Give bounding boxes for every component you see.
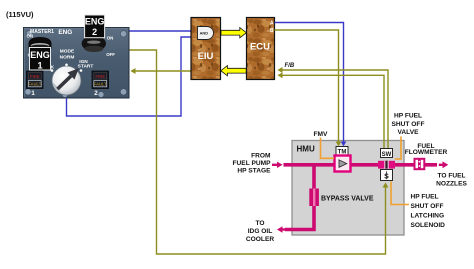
rotary mode selector knob [51,64,83,95]
wire ECU channel A to torque motor (blue) [275,23,344,146]
svg-text:AND: AND [200,31,209,36]
from fuel pump inlet arrow [272,162,283,168]
svg-text:OFF: OFF [106,52,115,57]
torque motor TM box [336,147,348,156]
wire EIU to panel indication (olive) [132,70,192,72]
svg-text:HP FUEL: HP FUEL [411,194,439,201]
svg-text:NORM: NORM [60,54,75,60]
svg-text:IDG OIL: IDG OIL [248,228,273,235]
to fuel nozzles outlet arrow [439,161,449,168]
wire mode selector to EIU (blue) [67,37,197,116]
leader FMV to valve (orange) [321,138,335,159]
svg-text:1: 1 [31,90,35,97]
ENG control panel 115VU [24,28,130,99]
svg-text:ON: ON [107,35,114,40]
svg-text:FLOWMETER: FLOWMETER [405,149,448,156]
svg-text:2: 2 [92,27,97,37]
svg-text:SHUT OFF: SHUT OFF [411,203,444,210]
bypass valve [309,189,319,207]
svg-text:START: START [78,63,94,69]
wire feedback switch to ECU F/B line 2 (olive) [279,75,385,148]
leader HP fuel shut off valve label (orange) [395,137,401,160]
svg-text:NOZZLES: NOZZLES [436,180,467,187]
svg-text:(115VU): (115VU) [6,10,34,19]
svg-text:LATCHING: LATCHING [411,213,445,220]
AND gate U1 [198,27,214,40]
svg-text:HP STAGE: HP STAGE [237,168,271,175]
FIRE FAULT pushbutton 2 [92,71,109,89]
svg-text:ON: ON [27,33,34,38]
latching solenoid S box [381,170,393,181]
wire feedback switch to ECU F/B line 1 (olive) [279,70,389,149]
svg-text:HMU: HMU [297,145,315,154]
leader latching solenoid label (orange) [391,182,409,205]
panel legend text [27,29,116,97]
HMU box [292,141,404,236]
svg-text:ENG: ENG [85,16,105,26]
panel screws [25,30,127,97]
svg-text:FMV: FMV [314,131,329,138]
bypass fuel pipe to IDG oil cooler [285,165,314,230]
ENG 2 master switch [82,15,106,52]
label TO IDG OIL COOLER [246,220,274,243]
svg-text:MASTER1: MASTER1 [30,29,54,35]
wire master switch to HP shutoff solenoid (olive) [130,50,386,254]
main fuel pipe [284,163,438,167]
svg-text:BYPASS VALVE: BYPASS VALVE [321,196,374,203]
svg-text:SW: SW [382,152,392,158]
label HP FUEL SHUT OFF VALVE [392,113,425,137]
yellow bus arrow EIU to ECU [221,28,246,38]
svg-text:FIRE: FIRE [30,74,40,79]
EIU box [191,18,221,80]
svg-text:MODE: MODE [60,49,75,55]
svg-text:ENG: ENG [58,29,72,36]
svg-text:FIRE: FIRE [95,74,105,79]
svg-text:COOLER: COOLER [246,236,274,243]
svg-text:FROM: FROM [251,152,271,159]
svg-text:1: 1 [37,60,42,70]
HP fuel shut off valve [378,161,395,169]
svg-text:FAULT: FAULT [28,82,41,87]
label TO FUEL NOZZLES [436,172,467,187]
svg-text:ENG: ENG [30,50,50,60]
svg-text:2: 2 [94,90,98,97]
wire ECU channel B to torque motor (olive) [275,30,339,145]
yellow bus arrow ECU to EIU [221,66,246,76]
ECU box [247,18,275,80]
svg-text:VALVE: VALVE [397,129,419,136]
label HP FUEL SHUT OFF LATCHING SOLENOID [411,194,446,230]
fuel metering valve FMV [335,156,351,172]
svg-text:ECU: ECU [250,42,270,53]
svg-text:FAULT: FAULT [94,82,107,87]
svg-text:B: B [270,28,274,34]
svg-text:SOLENOID: SOLENOID [411,222,446,229]
feedback switch SW box [381,149,393,159]
svg-text:F/B: F/B [285,63,295,69]
label FROM FUEL PUMP HP STAGE [233,152,272,174]
to IDG oil cooler arrow [277,226,287,232]
wire master switch to EIU (blue) [130,30,197,32]
svg-text:HP FUEL: HP FUEL [394,113,422,120]
fuel flowmeter [415,159,425,169]
svg-text:TO FUEL: TO FUEL [437,172,465,179]
svg-text:FUEL PUMP: FUEL PUMP [233,160,272,167]
FIRE FAULT pushbutton 1 [27,71,44,89]
svg-text:EIU: EIU [198,51,214,62]
label FUEL FLOWMETER [405,143,448,156]
svg-text:A: A [270,21,274,27]
svg-text:TO: TO [255,220,264,227]
ENG 1 master switch [29,37,52,70]
svg-text:SHUT OFF: SHUT OFF [392,121,425,128]
